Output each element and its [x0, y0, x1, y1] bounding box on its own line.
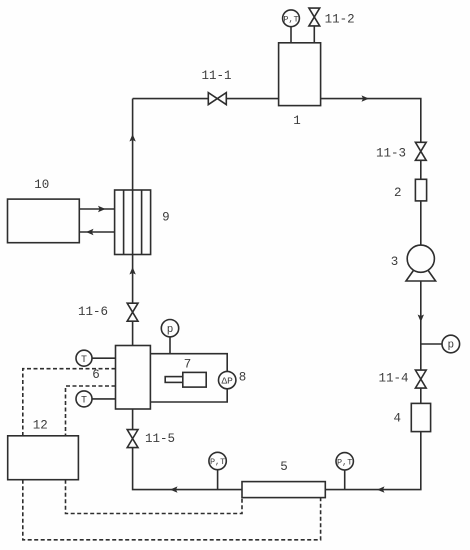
svg-text:1: 1 — [293, 114, 301, 128]
arrow up on left wire — [129, 134, 135, 142]
arrow down on right wire — [418, 315, 424, 323]
gauge dP 8 — [219, 371, 236, 388]
dashed link bath 12 to cooler 5 inner — [66, 480, 243, 514]
wire pump 3 down to valve 11-4 — [420, 281, 422, 370]
valve 11-5 — [127, 430, 138, 448]
wire filter 2 to pump 3 — [420, 201, 422, 245]
valve 11-6 — [127, 303, 138, 321]
wire valve 11-5 to separator 6 — [132, 409, 134, 430]
svg-text:8: 8 — [239, 370, 247, 384]
svg-text:5: 5 — [280, 460, 288, 474]
wire gauge T2 to separator 6 — [92, 398, 116, 400]
gauge p mid — [161, 320, 178, 337]
svg-text:11-4: 11-4 — [378, 371, 408, 385]
wire heat exchanger 9 up to top-left corner — [132, 99, 134, 190]
orifice 7 big rect — [183, 372, 206, 387]
svg-text:11-1: 11-1 — [201, 69, 231, 83]
wire component 4 down to bottom-right corner and left to cooler 5 — [325, 432, 421, 490]
svg-text:p: p — [447, 340, 454, 352]
svg-text:ΔP: ΔP — [221, 375, 233, 386]
wire vessel 1 to top-right corner then down to valve 11-3 — [321, 99, 421, 143]
filter 2 — [415, 179, 426, 201]
dashed link separator 6 to bath 12 inner — [66, 386, 116, 436]
svg-text:6: 6 — [92, 368, 100, 382]
wire cooler 5 to bottom-left corner and up to valve 11-5 — [133, 448, 242, 490]
stem gauge P,T top — [290, 27, 292, 43]
dashed link bath 12 to cooler 5 outer — [23, 480, 321, 540]
svg-text:10: 10 — [34, 178, 49, 192]
stem gauge p mid — [169, 337, 171, 354]
stub wire to gauge p right — [421, 343, 442, 345]
svg-text:T: T — [81, 355, 87, 366]
orifice 7 small rect — [165, 377, 183, 383]
svg-text:11-6: 11-6 — [78, 305, 108, 319]
wire separator 6 to valve 11-6 — [132, 321, 134, 345]
wire gauge T1 to separator 6 — [92, 357, 116, 359]
vessel 1 — [279, 43, 321, 106]
svg-text:9: 9 — [162, 210, 170, 224]
wire valve 11-4 to component 4 — [420, 388, 422, 403]
svg-text:11-3: 11-3 — [376, 146, 406, 160]
gauge p right — [442, 335, 460, 353]
svg-text:2: 2 — [394, 186, 402, 200]
valve 11-1 — [208, 93, 226, 105]
gauge P,T top — [283, 10, 300, 27]
pump 3 — [406, 245, 436, 281]
valve 11-3 — [415, 142, 426, 160]
cooler 5 — [242, 482, 325, 498]
wire top-left horizontal to valve 11-1 — [133, 98, 209, 100]
svg-text:P,T: P,T — [283, 14, 298, 24]
arrow left into chiller 10 — [86, 229, 94, 235]
stem gauge P,T bottom-right — [344, 470, 346, 490]
svg-text:4: 4 — [393, 411, 401, 425]
chiller 10 — [8, 199, 80, 243]
arrow left on bottom wire right segment — [377, 486, 385, 492]
heat exchanger 9 — [115, 190, 151, 255]
arrow right on top wire — [362, 95, 370, 101]
wire valve 11-3 to filter 2 — [420, 160, 422, 179]
gauge T2 — [76, 391, 92, 407]
dashed link separator 6 to bath 12 outer — [23, 369, 116, 436]
svg-text:12: 12 — [33, 419, 48, 433]
wire orifice loop top — [150, 354, 227, 402]
svg-text:3: 3 — [391, 255, 399, 269]
arrow up below heat exchanger 9 — [129, 267, 135, 275]
valve 11-2 — [309, 8, 320, 26]
arrow left on bottom wire left segment — [170, 486, 178, 492]
component 4 — [411, 403, 430, 431]
wire valve 11-1 to vessel 1 — [226, 98, 278, 100]
gauge P,T bottom-right — [336, 453, 353, 470]
svg-text:7: 7 — [184, 357, 192, 371]
wire chiller 10 to HX 9 upper — [79, 208, 114, 210]
svg-text:P,T: P,T — [337, 457, 352, 467]
gauge P,T bottom-left — [209, 452, 226, 469]
wire valve 11-6 to heat exchanger 9 — [132, 255, 134, 304]
arrow right into HX 9 — [98, 206, 106, 212]
stem valve 11-2 — [313, 26, 315, 43]
svg-text:11-2: 11-2 — [325, 12, 355, 26]
wire HX 9 to chiller 10 lower — [79, 231, 114, 233]
svg-text:p: p — [167, 324, 174, 336]
stem gauge P,T bottom-left — [217, 470, 219, 490]
valve 11-4 — [415, 370, 426, 388]
svg-text:11-5: 11-5 — [145, 432, 175, 446]
svg-text:T: T — [81, 396, 87, 407]
svg-text:P,T: P,T — [210, 457, 225, 467]
separator 6 — [116, 346, 151, 410]
gauge T1 — [76, 350, 92, 366]
thermostat bath 12 — [8, 436, 79, 480]
